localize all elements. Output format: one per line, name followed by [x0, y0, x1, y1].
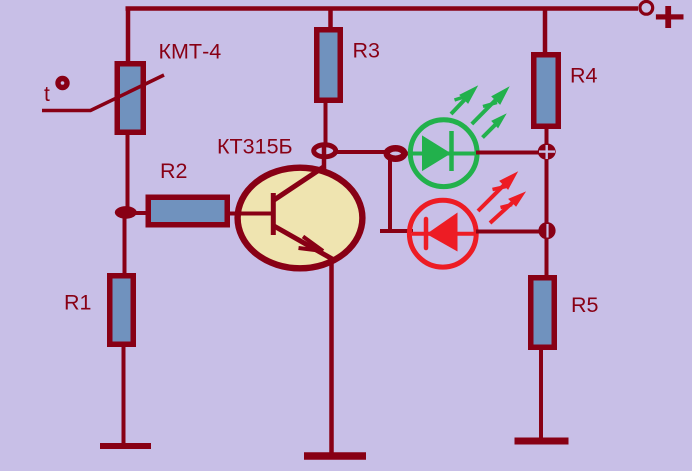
red LED cathode bar [424, 219, 429, 248]
wire node A to R2 [135, 211, 147, 215]
wire node D to node E [545, 159, 549, 223]
red LED triangle [427, 213, 458, 252]
node A junction dot [115, 206, 137, 219]
wire R3 to node B [324, 102, 328, 144]
wire top rail [126, 6, 639, 11]
wire green LED to node D [476, 151, 540, 155]
plus symbol [656, 6, 684, 28]
resistor R3 [317, 30, 341, 101]
green LED triangle [422, 135, 451, 171]
base bar [271, 193, 276, 235]
resistor R5 [531, 278, 555, 348]
svg-text:R1: R1 [64, 291, 91, 315]
wire from top rail to thermistor [126, 7, 131, 62]
base lead inside [240, 212, 272, 216]
wire node C to green LED [403, 152, 413, 156]
terminal O [640, 1, 653, 14]
wire node C down [388, 158, 392, 231]
svg-text:R2: R2 [160, 159, 187, 183]
wire thermistor to node A [126, 134, 130, 207]
wire R2 to base [229, 212, 244, 216]
red arrow 2 [490, 192, 525, 223]
wire node B down to collector [322, 143, 327, 172]
transistor Q1 KT315B body [238, 168, 363, 269]
green arrow 3 [483, 115, 506, 138]
ground left bar [100, 443, 151, 449]
wire R4 to node D [545, 128, 549, 145]
wire top rail to R3 [328, 7, 333, 29]
red arrow 1 [478, 172, 517, 211]
wire top rail to R4 [543, 9, 548, 53]
svg-text:КМТ-4: КМТ-4 [159, 39, 222, 63]
wire stub to red LED [380, 229, 413, 233]
node C junction [387, 148, 405, 159]
degree ring [58, 79, 67, 88]
wire R1 to ground [122, 346, 126, 445]
wire emitter to ground [329, 258, 334, 453]
wire node E to R5 [545, 238, 549, 276]
emitter stroke [274, 226, 334, 260]
red LED lead [412, 232, 475, 236]
wire node B to node C [335, 150, 387, 154]
LED VD1 green circle [410, 120, 477, 187]
svg-text:R4: R4 [570, 64, 598, 88]
node E junction [538, 222, 555, 239]
svg-text:R5: R5 [571, 293, 599, 317]
LED VD2 red circle [409, 200, 476, 267]
green LED lead [412, 152, 475, 156]
resistor R2 [148, 197, 227, 225]
green LED cathode bar [449, 131, 454, 171]
node B collector junction [314, 145, 336, 157]
ground middle bar [304, 452, 366, 460]
collector stroke [274, 166, 325, 200]
thermistor diagonal stroke [42, 75, 164, 111]
ground right bar [515, 438, 569, 445]
emitter arrow barb upper [303, 237, 323, 252]
svg-text:R3: R3 [353, 39, 381, 63]
node D junction [538, 143, 556, 159]
wire node A to R1 [123, 218, 127, 274]
svg-text:КТ315Б: КТ315Б [217, 134, 293, 158]
wire red LED to node E [476, 230, 540, 234]
svg-text:t: t [44, 83, 50, 106]
thermistor RK1 KMT-4 body [117, 64, 143, 133]
green arrow 1 [451, 87, 477, 115]
wire R5 to ground [539, 349, 543, 440]
resistor R1 [110, 276, 134, 345]
resistor R4 [534, 55, 559, 127]
emitter arrow barb lower [299, 248, 324, 251]
green arrow 2 [472, 88, 509, 125]
